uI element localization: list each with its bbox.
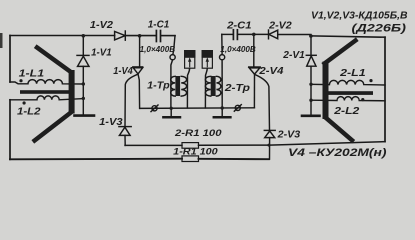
svg-text:2-R1 100: 2-R1 100 (174, 128, 223, 138)
svg-text:V1,V2,V3-КД105Б,В: V1,V2,V3-КД105Б,В (311, 10, 408, 21)
svg-text:(Д226Б): (Д226Б) (352, 23, 407, 35)
svg-text:1-Тр: 1-Тр (147, 81, 170, 92)
svg-text:1-V4: 1-V4 (113, 66, 133, 77)
svg-text:1-V2: 1-V2 (90, 20, 113, 31)
svg-text:1-C1: 1-C1 (148, 19, 170, 30)
svg-text:2-V2: 2-V2 (268, 20, 292, 31)
svg-text:2-C1: 2-C1 (226, 20, 252, 31)
svg-text:2-V4: 2-V4 (258, 66, 284, 77)
svg-text:1-V1: 1-V1 (91, 48, 112, 59)
svg-text:2-V1: 2-V1 (282, 50, 305, 61)
svg-text:2-L2: 2-L2 (333, 106, 360, 117)
svg-text:V4 –КУ202М(н): V4 –КУ202М(н) (288, 147, 387, 159)
svg-text:1-L2: 1-L2 (17, 107, 41, 118)
svg-text:1-R1 100: 1-R1 100 (173, 147, 218, 157)
svg-text:2-L1: 2-L1 (339, 68, 366, 79)
svg-text:1-L1: 1-L1 (19, 69, 45, 80)
svg-text:2-Тр: 2-Тр (224, 83, 250, 94)
svg-text:1,0×400В: 1,0×400В (140, 45, 176, 54)
svg-text:2-V3: 2-V3 (277, 129, 301, 140)
svg-text:1,0×400В: 1,0×400В (220, 45, 256, 54)
svg-text:1-V3: 1-V3 (99, 117, 123, 128)
